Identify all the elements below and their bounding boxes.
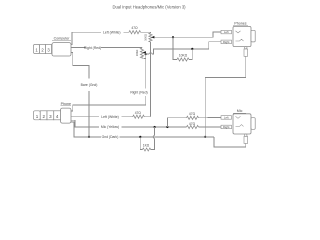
junction mic branch [166, 126, 168, 128]
svg-text:Left (White): Left (White) [101, 115, 119, 119]
wire phone gnd down [71, 122, 101, 137]
wire bridge from out-L [173, 37, 177, 59]
pin sleeve gnd [245, 47, 247, 49]
wire bridge to out-R [189, 49, 192, 60]
wire phone mic (yellow) [71, 120, 99, 127]
svg-text:Left: Left [224, 116, 229, 120]
wire 1K right with hop over gnd [151, 138, 155, 149]
svg-text:47Ω: 47Ω [189, 122, 196, 126]
potentiometer VR2 10K [140, 48, 143, 58]
wire phone right vertical [145, 54, 147, 88]
wire phone left (white) [71, 116, 99, 118]
pin sleeve gnd [245, 134, 247, 136]
svg-text:Right (Red): Right (Red) [84, 46, 101, 50]
svg-text:Computer: Computer [54, 36, 71, 40]
wire computer left (white) [71, 32, 101, 45]
switch contacts [236, 31, 241, 33]
gnd bus to mic jack sleeve [214, 137, 246, 147]
svg-text:Phone: Phone [61, 102, 71, 106]
wire mic branch up [167, 118, 186, 127]
svg-text:Bare (Gnd): Bare (Gnd) [81, 83, 98, 87]
svg-text:10KΩ: 10KΩ [179, 54, 188, 58]
svg-text:47Ω: 47Ω [135, 111, 142, 115]
wire pot2 bottom [142, 57, 146, 60]
pin Left [221, 30, 232, 34]
wire to mic jack Left pin [199, 117, 222, 119]
pin Left [221, 116, 232, 120]
wire phone right up [71, 105, 73, 111]
junction node out-L [172, 36, 174, 38]
wire phones gnd [205, 56, 246, 137]
junction phones gnd to bus [204, 136, 206, 138]
wire to mic jack Right pin [199, 126, 222, 128]
svg-text:Right: Right [223, 125, 230, 129]
svg-text:Right: Right [223, 40, 230, 44]
svg-text:Dual Input Headphones/Mic (Ver: Dual Input Headphones/Mic (Version 3) [112, 5, 186, 10]
svg-text:47Ω: 47Ω [131, 26, 138, 30]
wire pot1 bottom to phone-left resistor [150, 42, 152, 117]
svg-text:10KΩ: 10KΩ [135, 50, 139, 57]
svg-text:Mic (Yellow): Mic (Yellow) [101, 125, 119, 129]
junction mic to 1K [154, 126, 156, 128]
svg-text:Mic: Mic [237, 109, 243, 113]
wire out right with hop over V1 [146, 53, 150, 55]
svg-text:47Ω: 47Ω [189, 112, 196, 116]
junction gnd bus [88, 136, 90, 138]
junction node out-R [191, 48, 193, 50]
svg-text:Gnd (Dark): Gnd (Dark) [102, 135, 119, 139]
wire to pot VR1 top [141, 31, 151, 34]
wire 1K left [140, 137, 142, 150]
wire out left [154, 32, 221, 37]
wire computer bare gnd [71, 52, 89, 78]
svg-text:Left: Left [224, 30, 229, 34]
svg-text:Left (White): Left (White) [103, 30, 121, 34]
junction node out-R wiper [145, 53, 147, 55]
wire to V1 [144, 116, 150, 118]
switch contacts [236, 116, 241, 118]
svg-text:Phones: Phones [234, 22, 246, 26]
svg-text:10KΩ: 10KΩ [143, 34, 147, 41]
potentiometer VR1 10K [149, 33, 152, 42]
pin Right [221, 40, 232, 44]
svg-text:1KΩ: 1KΩ [143, 144, 150, 148]
crossing tick [172, 48, 174, 50]
wire computer right (red) [71, 47, 86, 49]
junction 1K left [139, 136, 141, 138]
pin Right [221, 125, 232, 129]
svg-text:Right (Red): Right (Red) [130, 91, 147, 95]
